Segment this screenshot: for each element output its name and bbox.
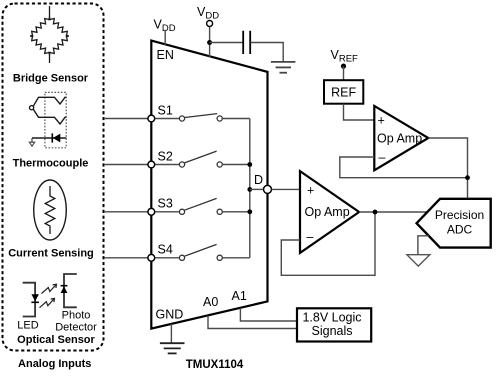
LED diode — [31, 294, 39, 301]
ground (cap) — [271, 62, 296, 73]
current sensing ellipse — [34, 180, 67, 240]
svg-text:A1: A1 — [232, 289, 247, 303]
svg-text:LED: LED — [17, 320, 38, 332]
LED bracket — [23, 283, 35, 317]
svg-text:S2: S2 — [158, 149, 173, 163]
switch S1 arm (closed) — [185, 114, 217, 118]
switch S2 arm (open) — [185, 151, 217, 163]
op-amp1 feedback wire — [340, 157, 468, 178]
wire S2 to bus — [222, 164, 250, 166]
VREF terminal dot — [341, 64, 346, 69]
thermocouple ground arrow — [31, 138, 33, 142]
wire S1 to bus — [222, 118, 250, 120]
junction dot S3 — [247, 209, 252, 214]
wire S4 to bus — [222, 257, 250, 259]
switch S4 arm (open) — [185, 244, 217, 256]
D port — [264, 185, 272, 193]
S2 port — [148, 161, 155, 168]
ground (mux) — [160, 343, 185, 353]
svg-text:EN: EN — [157, 48, 174, 62]
current sense resistor — [45, 186, 55, 234]
thermocouple diode D1 — [32, 137, 66, 139]
svg-text:Thermocouple: Thermocouple — [13, 158, 89, 170]
junction dot S2 — [247, 162, 252, 167]
thermocouple junction and wires — [30, 97, 67, 124]
REF box — [324, 80, 363, 104]
svg-text:Signals: Signals — [312, 324, 353, 338]
thermocouple dotted box — [45, 92, 66, 147]
junction dot feedback2 — [373, 210, 378, 215]
wire S1 input — [104, 118, 179, 120]
switch S1 contacts — [179, 116, 184, 121]
photo detector diode — [61, 286, 68, 293]
wire D to op-amp2 + — [272, 188, 301, 190]
ground (ADC, open triangle) — [407, 255, 430, 266]
svg-text:Op Amp: Op Amp — [377, 132, 422, 146]
svg-text:+: + — [307, 184, 314, 198]
capacitor C1 — [243, 31, 250, 54]
S4 port — [148, 254, 155, 261]
analog inputs dashed container — [3, 4, 104, 351]
svg-text:ADC: ADC — [447, 223, 473, 237]
svg-text:–: – — [379, 151, 386, 165]
svg-text:D: D — [254, 173, 263, 187]
wire mux GND — [170, 324, 172, 343]
wire S3 input — [104, 211, 179, 213]
svg-text:Photo: Photo — [62, 309, 91, 321]
wire VREF to REF box — [343, 66, 345, 80]
wire S2 input — [104, 164, 179, 166]
svg-text:S1: S1 — [158, 103, 173, 117]
ADC ground wire — [418, 236, 429, 255]
svg-text:S3: S3 — [158, 197, 173, 211]
logic signals box — [297, 308, 371, 341]
svg-text:Optical Sensor: Optical Sensor — [17, 334, 95, 346]
S3 port — [148, 208, 155, 215]
op-amp1 output wire — [428, 138, 467, 199]
wire VDD down to mux — [209, 27, 211, 58]
switch S3 contacts — [179, 209, 184, 214]
svg-text:TMUX1104: TMUX1104 — [186, 359, 244, 371]
wire to D port — [250, 188, 264, 190]
svg-text:–: – — [307, 230, 314, 244]
switch S3 arm (open) — [185, 198, 217, 210]
wire S4 input — [104, 257, 179, 259]
precision ADC — [417, 199, 491, 248]
junction dot — [207, 40, 212, 45]
svg-text:A0: A0 — [203, 295, 218, 309]
svg-text:Op Amp: Op Amp — [305, 205, 350, 219]
bus vertical wire — [249, 119, 251, 258]
svg-text:Bridge Sensor: Bridge Sensor — [13, 73, 89, 85]
wire REF to op-amp1 + — [344, 104, 375, 120]
op-amp2 feedback wire — [281, 212, 375, 275]
wire to decoupling cap — [210, 42, 243, 44]
wire cap to ground — [250, 43, 283, 62]
svg-text:GND: GND — [156, 308, 184, 322]
switch S2 contacts — [179, 162, 184, 167]
op-amp U3 (signal buffer) — [300, 171, 359, 253]
op-amp U2 (buffer for REF) — [374, 106, 428, 170]
svg-text:S4: S4 — [158, 243, 173, 257]
wire A0 — [208, 316, 297, 329]
junction dot feedback1 — [465, 175, 470, 180]
svg-text:Current Sensing: Current Sensing — [8, 248, 94, 260]
svg-text:Precision: Precision — [435, 208, 484, 222]
bridge sensor — [30, 6, 69, 63]
LED light arrows — [40, 284, 57, 308]
svg-text:Detector: Detector — [55, 321, 97, 333]
svg-text:1.8V Logic: 1.8V Logic — [302, 311, 361, 325]
wire A1 — [240, 308, 297, 321]
wire S3 to bus — [222, 211, 250, 213]
svg-text:REF: REF — [331, 85, 356, 99]
svg-text:Analog Inputs: Analog Inputs — [18, 358, 91, 370]
multiplexer U1 TMUX1104 body — [151, 41, 267, 329]
S1 port — [148, 115, 155, 122]
photo detector bracket — [64, 274, 77, 307]
junction dot D branch — [247, 187, 252, 192]
switch S4 contacts — [179, 255, 184, 260]
svg-text:+: + — [378, 114, 385, 128]
wire VDD to EN edge — [164, 30, 166, 45]
op-amp2 output wire — [359, 211, 427, 213]
